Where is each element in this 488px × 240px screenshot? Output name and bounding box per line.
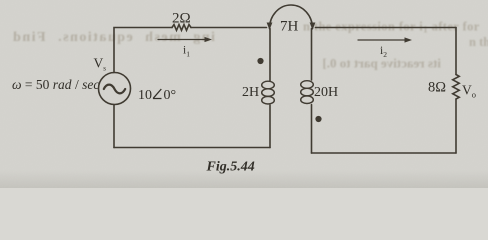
paper background <box>0 0 488 188</box>
wire right vertical below 8ohm <box>455 99 457 153</box>
bleed-through fragment right margin <box>469 35 488 49</box>
svg-text:10: 10 <box>138 88 152 103</box>
wire bottom of left loop <box>114 147 270 149</box>
polarity dot left coil <box>257 58 263 64</box>
svg-text:n th: n th <box>469 35 488 49</box>
sine tilde inside source <box>104 85 125 94</box>
wire left vertical below source <box>113 105 115 148</box>
resistor R 2ohm zigzag <box>172 25 191 31</box>
inductor L2 20H coil loops <box>301 81 314 104</box>
svg-text:0°: 0° <box>164 88 177 103</box>
wire mid-right vertical above 20H coil <box>311 29 313 81</box>
angle symbol in 10&lt;0 <box>153 89 162 99</box>
wire right vertical above 8ohm <box>455 28 457 75</box>
bottom page shading <box>0 0 1 1</box>
wire mid-left vertical below 2H coil <box>269 105 271 148</box>
svg-text:its reactive part to 0.]: its reactive part to 0.] <box>322 56 441 71</box>
source V circle <box>99 73 131 105</box>
arrowhead arc left (down) <box>267 23 273 31</box>
mutual inductance arc 7H <box>270 5 313 29</box>
wire top-right horizontal from right arc end to 8ohm <box>316 27 457 29</box>
wire mid-left vertical above 2H coil <box>269 29 271 82</box>
svg-text:Fig.5.44: Fig.5.44 <box>206 160 255 175</box>
inductor L1 2H coil loops <box>262 81 275 104</box>
svg-text:7H: 7H <box>280 19 299 35</box>
current arrow i1 <box>158 39 207 41</box>
arrowhead i2 <box>405 37 413 42</box>
current arrow i2 <box>358 39 407 41</box>
svg-text:8Ω: 8Ω <box>428 80 446 96</box>
wire mid-right vertical below 20H coil <box>311 105 313 154</box>
svg-text:ω = 50 rad / sec: ω = 50 rad / sec <box>12 77 99 92</box>
svg-text:2H: 2H <box>242 85 259 100</box>
wire top-left horizontal from source riser to resistor <box>114 28 172 73</box>
arrowhead arc right (down) <box>310 23 316 31</box>
wire bottom of right loop <box>312 152 457 154</box>
bleed-through text line C (mirrored): "its reactive part to 0.]" <box>322 56 441 71</box>
svg-text:20H: 20H <box>314 85 338 100</box>
bleed-through text line B: "n the expression for i1 after for" <box>303 20 480 35</box>
bleed-through text line A (mirrored): "ing mesh equations. Find" <box>12 30 215 45</box>
svg-text:2Ω: 2Ω <box>172 11 191 27</box>
arrowhead i1 <box>205 37 213 42</box>
polarity dot right coil <box>315 116 321 122</box>
wire resistor to left coupling node <box>191 27 267 29</box>
resistor R 8ohm vertical zigzag <box>453 75 460 100</box>
